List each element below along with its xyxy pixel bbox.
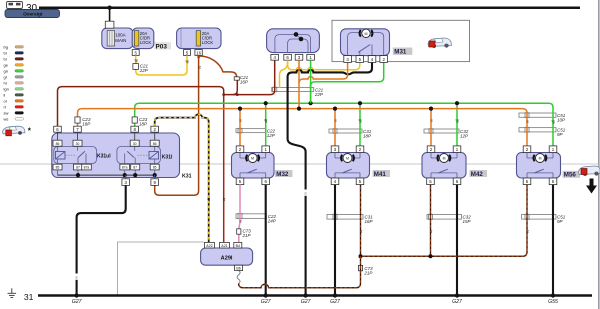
legend car location icon bbox=[3, 126, 26, 136]
bus 31 ground wire bbox=[38, 294, 592, 296]
wire or K31 pin7 stub bbox=[77, 123, 79, 126]
svg-text:rs: rs bbox=[239, 220, 243, 223]
K31 relay box assembly bbox=[52, 133, 180, 179]
svg-text:sw: sw bbox=[4, 110, 9, 115]
wire or M31 pin3 to relay pin3 riser bbox=[299, 62, 348, 83]
svg-text:9P: 9P bbox=[557, 132, 563, 137]
svg-text:sw: sw bbox=[74, 275, 78, 280]
fuse box P03 right section with fuse 20A C/DR LOCK bbox=[132, 28, 154, 49]
K31 internal pin 87 right bbox=[131, 164, 140, 170]
svg-text:sw: sw bbox=[303, 191, 307, 196]
svg-text:12P: 12P bbox=[267, 133, 275, 138]
svg-text:30: 30 bbox=[76, 142, 80, 146]
svg-text:86: 86 bbox=[153, 142, 157, 146]
K31 pin 9 bbox=[151, 179, 159, 186]
wire sw K31 pin3 to ground bbox=[77, 185, 126, 295]
K31 internal pin 86 bbox=[53, 140, 62, 146]
svg-text:G27: G27 bbox=[261, 299, 272, 305]
K31 internal pin 87a right bbox=[120, 164, 130, 170]
svg-text:M: M bbox=[346, 157, 349, 161]
svg-text:LOCK: LOCK bbox=[202, 40, 214, 45]
junction on bus 30 bbox=[107, 6, 111, 10]
svg-text:K31l: K31l bbox=[162, 155, 173, 161]
svg-text:18P: 18P bbox=[82, 122, 90, 127]
svg-text:G27: G27 bbox=[301, 299, 312, 305]
wire label break on K31 pin3 ground wire bbox=[74, 274, 78, 281]
svg-text:K31ul: K31ul bbox=[97, 154, 111, 160]
Oversigt button bbox=[5, 10, 60, 18]
svg-text:ge: ge bbox=[134, 59, 138, 63]
K31 pin 2 bbox=[151, 126, 159, 132]
M42 label bbox=[470, 170, 488, 177]
K31 pin 8 bbox=[131, 126, 139, 132]
connector C23 18P at K31 pin 8 bbox=[132, 117, 137, 123]
wire or relay pin3 stub bbox=[298, 60, 300, 80]
svg-text:18P: 18P bbox=[139, 122, 147, 127]
svg-text:ge: ge bbox=[207, 198, 211, 202]
wire ge relay pin6 to C21 bar bbox=[280, 62, 288, 88]
svg-text:gn: gn bbox=[359, 119, 363, 123]
inline connector C73 21P on B4 wire bbox=[237, 229, 241, 234]
wire br branch fuse2 pin16 to connector C20 16P bbox=[199, 56, 237, 77]
svg-text:A29l: A29l bbox=[221, 255, 233, 261]
svg-text:M56: M56 bbox=[564, 172, 577, 179]
K31 pin 3 bbox=[122, 179, 130, 186]
svg-text:10P: 10P bbox=[557, 117, 565, 122]
svg-text:87a: 87a bbox=[84, 166, 90, 170]
car location icon at M31 bbox=[428, 38, 452, 48]
pin 5 of fuse box 2 bbox=[184, 50, 191, 56]
wire ge fuse1 pin5 to connector C21 to fuse2 pin5 bbox=[136, 55, 187, 75]
A29l pin B6 bbox=[235, 265, 243, 270]
svg-text:M42: M42 bbox=[471, 171, 484, 178]
K31 internal pin 30 bbox=[73, 140, 82, 146]
fuse F 100A MAIN bbox=[107, 31, 114, 46]
svg-text:9P: 9P bbox=[557, 219, 563, 224]
svg-text:B6: B6 bbox=[236, 267, 240, 271]
wire rt riser to A29l A21 bbox=[223, 95, 225, 243]
wire sw M31 pin4 to ground via jog bbox=[288, 62, 372, 295]
ground symbol 31 bbox=[8, 288, 17, 297]
A29l shield ground line bbox=[118, 242, 205, 296]
wire sw M56 pin6 to ground bbox=[552, 185, 554, 296]
wire or bus bbox=[78, 109, 528, 146]
svg-text:G55: G55 bbox=[548, 299, 558, 305]
K31 internal pin 30 right bbox=[130, 140, 139, 146]
M56 label bbox=[563, 171, 581, 178]
wire gn M31 pin2 to relay pin1 riser bbox=[311, 62, 384, 103]
wire br bottom bus M41/M42/M56 pin5 bbox=[360, 185, 362, 257]
M32 label bbox=[275, 170, 293, 177]
svg-text:bg: bg bbox=[4, 44, 8, 49]
internal ground bus of K31 bbox=[57, 170, 59, 175]
svg-text:G27: G27 bbox=[72, 299, 83, 305]
relay K31ul outline bbox=[54, 147, 97, 164]
K31 pin riser stubs bbox=[58, 132, 155, 140]
wire sw M42 pin6 to ground bbox=[456, 185, 458, 296]
wire br connector to y95 run bbox=[233, 80, 237, 94]
pin 16 of fuse box 2 bbox=[195, 50, 202, 56]
svg-text:ge: ge bbox=[4, 62, 9, 67]
svg-text:16P: 16P bbox=[365, 219, 373, 224]
K31 internal pin 87 bbox=[74, 164, 83, 170]
svg-text:gn: gn bbox=[4, 68, 8, 73]
wire sw M41 pin4 to ground bbox=[334, 185, 336, 296]
connector bar pin sockets bbox=[238, 87, 529, 219]
svg-text:MAIN: MAIN bbox=[115, 38, 126, 43]
door module M32 bbox=[232, 153, 275, 179]
svg-text:M: M bbox=[539, 157, 542, 161]
M31 pins 3 5 4 2 bbox=[344, 56, 352, 63]
svg-text:85: 85 bbox=[153, 166, 157, 170]
car location icon at M56 bbox=[579, 166, 600, 176]
M31 label bbox=[393, 48, 413, 55]
wire br fuse2 pin16 down and loop to K31 pin 9 bbox=[155, 55, 199, 195]
svg-text:16P: 16P bbox=[240, 80, 248, 85]
connector bars layer bbox=[236, 88, 556, 220]
wire br K31 pin6 riser to A29l A21 bbox=[58, 87, 224, 127]
K31 internal pin 85 bbox=[53, 164, 62, 170]
svg-text:ge: ge bbox=[186, 60, 190, 64]
svg-text:24P: 24P bbox=[267, 218, 276, 223]
svg-text:gn: gn bbox=[264, 119, 268, 123]
wire rs M32 pin5 to A29l B4 bbox=[239, 185, 240, 243]
right page border bbox=[598, 0, 600, 309]
fuse box P03 left section bbox=[102, 28, 133, 49]
relay pins 4 6 3 1 bbox=[271, 54, 279, 60]
relay K31l outline bbox=[117, 147, 160, 164]
switch K31l bbox=[134, 147, 136, 151]
connector C23 18P at K31 pin 7 bbox=[75, 117, 80, 123]
continuation arrow bbox=[586, 179, 597, 194]
svg-text:M41: M41 bbox=[374, 171, 387, 178]
ground junctions bbox=[74, 293, 78, 297]
wire br A29l B6 to bottom bus bbox=[239, 256, 361, 288]
wire gn K31 pin8 stub bbox=[134, 123, 136, 126]
svg-text:87a: 87a bbox=[122, 166, 128, 170]
svg-text:31: 31 bbox=[24, 292, 34, 302]
K31 internal pin 87a bbox=[82, 164, 92, 170]
wire colour legend bbox=[4, 44, 24, 121]
svg-text:85: 85 bbox=[56, 166, 60, 170]
svg-text:P03: P03 bbox=[156, 43, 168, 50]
A29l control unit bbox=[201, 248, 253, 265]
relay box (door lock switch block) bbox=[267, 29, 320, 53]
svg-text:M31: M31 bbox=[394, 49, 407, 56]
svg-text:gn: gn bbox=[456, 119, 460, 123]
motor M31 symbol bbox=[360, 30, 361, 37]
svg-text:21P: 21P bbox=[242, 233, 251, 238]
svg-text:A22: A22 bbox=[206, 244, 212, 248]
connector C21 22P bbox=[133, 64, 139, 70]
svg-text:21P: 21P bbox=[363, 270, 372, 275]
K31 pin 6 bbox=[54, 126, 62, 132]
wire ge/sw K31 pin2 to A29l A22 bbox=[155, 114, 209, 242]
second fuse box 20A C/DR LOCK bbox=[177, 28, 221, 49]
wire gn relay pin1 stub bbox=[310, 60, 312, 87]
svg-text:A21: A21 bbox=[221, 244, 227, 248]
svg-text:15P: 15P bbox=[463, 219, 471, 224]
svg-text:LOCK: LOCK bbox=[140, 40, 152, 45]
M41 label bbox=[373, 170, 391, 177]
svg-text:K31: K31 bbox=[182, 174, 192, 180]
svg-text:87: 87 bbox=[133, 166, 137, 170]
A29l pin A22 bbox=[205, 242, 215, 248]
M31 assembly outer box bbox=[332, 20, 470, 61]
svg-text:lgn: lgn bbox=[4, 86, 9, 91]
svg-text:30: 30 bbox=[133, 142, 137, 146]
switch in M31 bbox=[359, 52, 361, 56]
svg-text:bl: bl bbox=[4, 50, 7, 55]
A29l pin B4 bbox=[234, 242, 242, 248]
svg-text:M: M bbox=[365, 32, 368, 36]
svg-text:li: li bbox=[4, 92, 6, 97]
svg-text:M: M bbox=[443, 157, 446, 161]
svg-text:M: M bbox=[251, 157, 254, 161]
connector C20 16P bbox=[234, 77, 239, 80]
wire or drops bbox=[239, 109, 241, 146]
A29l pin A21 bbox=[220, 242, 230, 248]
P03 label bbox=[155, 42, 172, 49]
bus 30 wire bbox=[39, 6, 580, 9]
svg-text:22P: 22P bbox=[314, 92, 323, 97]
M31 actuator box bbox=[341, 29, 390, 56]
wire bus30 to fuse box P03 bbox=[109, 8, 111, 22]
battery icon bbox=[7, 2, 23, 9]
wire gn bus bbox=[135, 103, 553, 146]
door module M42 bbox=[422, 153, 466, 179]
svg-text:G27: G27 bbox=[330, 299, 341, 305]
shield squiggle below B6 bbox=[237, 271, 240, 284]
pin (top) of P03 bbox=[105, 21, 114, 28]
pin 5 of P03 bbox=[132, 50, 139, 56]
faint page divider line bbox=[0, 163, 600, 165]
K31 internal pin 86 right bbox=[150, 140, 159, 146]
wire sw M32 pin6 to ground bbox=[265, 185, 267, 296]
wire gn drops bbox=[265, 103, 267, 146]
svg-text:ws: ws bbox=[4, 116, 9, 121]
svg-text:G27: G27 bbox=[452, 299, 463, 305]
svg-text:12P: 12P bbox=[460, 133, 468, 138]
coil K31l bbox=[149, 152, 159, 160]
K31 internal pin 85 right bbox=[150, 164, 159, 170]
svg-text:18P: 18P bbox=[363, 133, 371, 138]
svg-text:Oversigt: Oversigt bbox=[23, 12, 43, 18]
svg-text:gn: gn bbox=[552, 120, 556, 124]
door module M56 bbox=[517, 153, 561, 179]
svg-text:M32: M32 bbox=[276, 171, 289, 178]
svg-text:16: 16 bbox=[196, 50, 201, 55]
switch K31ul bbox=[77, 147, 79, 151]
coil K31ul bbox=[56, 152, 66, 160]
K31l coil-switch link bbox=[138, 154, 150, 156]
K31 pin 7 bbox=[74, 126, 82, 132]
door module M41 bbox=[327, 153, 370, 179]
wire br y95 run to C21 bar (relay pin 4) bbox=[224, 60, 275, 94]
wire ge M31 pin5 to relay pin6 bbox=[288, 60, 360, 70]
svg-text:86: 86 bbox=[56, 142, 60, 146]
svg-text:22P: 22P bbox=[139, 68, 148, 73]
svg-text:B4: B4 bbox=[236, 244, 240, 248]
inline connector C73 21P on M41 pin5 wire bbox=[358, 265, 362, 270]
svg-text:87: 87 bbox=[76, 166, 80, 170]
K31ul coil-switch link bbox=[65, 154, 77, 156]
tiny wire colour labels bbox=[134, 59, 555, 234]
wire label break on M31 ground wire bbox=[303, 190, 307, 197]
